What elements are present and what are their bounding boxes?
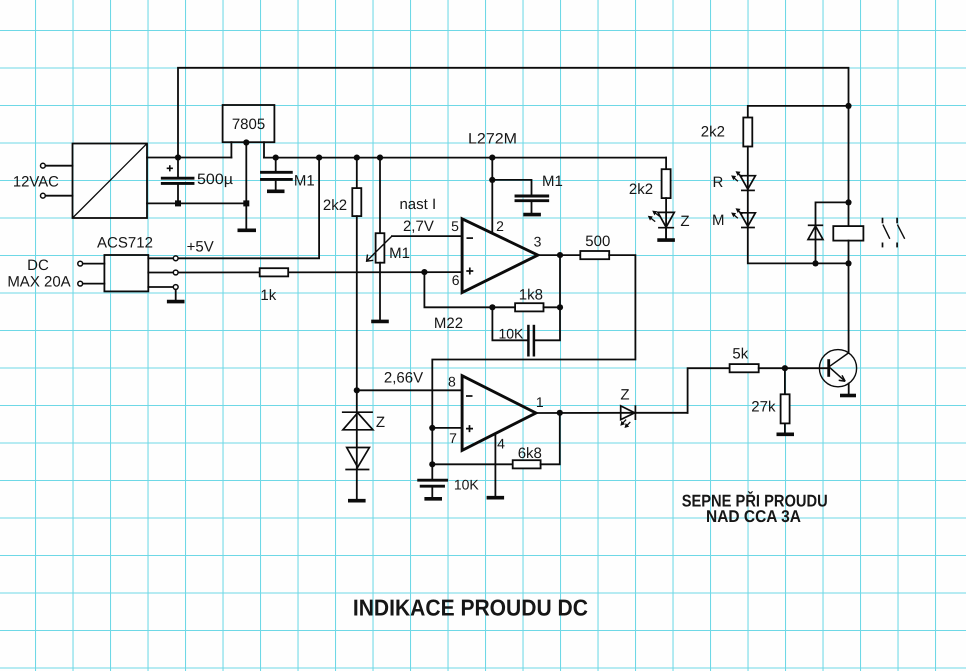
ground led Z <box>657 238 675 242</box>
svg-text:7: 7 <box>449 430 457 446</box>
wire to 2k2 red branch <box>748 106 849 118</box>
svg-text:M1: M1 <box>542 173 563 190</box>
svg-text:5: 5 <box>451 218 459 234</box>
svg-text:2k2: 2k2 <box>323 197 347 214</box>
wire opamp1 output <box>538 254 581 256</box>
op-amp U1B <box>462 376 536 451</box>
op-amp U1A <box>462 219 538 293</box>
wire sensor output to opamp <box>179 271 463 273</box>
junction rail 2k2 <box>354 155 360 161</box>
ground C2 <box>267 190 285 194</box>
wire led M to relay bottom rail <box>748 228 849 264</box>
wire 2k2 to led R <box>747 147 749 191</box>
svg-text:500: 500 <box>585 233 610 250</box>
capacitor C1 500u <box>162 158 193 204</box>
wire 7805 gnd pin <box>245 142 247 230</box>
terminal DC in bottom <box>78 281 105 286</box>
svg-text:1: 1 <box>536 394 544 410</box>
ground C5 <box>424 497 442 501</box>
wire 5k to base <box>759 367 828 369</box>
wire 2k2 to led Z <box>665 198 667 239</box>
svg-text:500µ: 500µ <box>197 171 233 188</box>
wire right rail to 2k2 led branch <box>665 158 667 170</box>
wire transformer top output to 7805 input <box>147 157 231 159</box>
wire pin 4 to ground <box>494 434 496 497</box>
svg-text:ACS712: ACS712 <box>97 235 153 252</box>
junction feedback left <box>489 304 495 310</box>
junction node 500u bottom <box>175 200 181 206</box>
junction flywheel bottom <box>812 260 818 266</box>
regulator U2 7805 <box>223 105 275 142</box>
wire ACS712 gnd <box>175 290 177 301</box>
svg-text:4: 4 <box>497 436 505 452</box>
relay K1 coil <box>833 106 863 264</box>
wire led to base network <box>688 368 730 413</box>
junction rail opamp supply <box>489 155 495 161</box>
resistor R5 6k8 <box>513 460 541 468</box>
svg-text:2k2: 2k2 <box>629 181 653 198</box>
wire top unregulated V+ <box>178 68 849 158</box>
resistor R4 500 <box>580 251 609 259</box>
wire 500 output to comparator input <box>432 255 635 464</box>
sensor U3 ACS712 <box>97 235 153 292</box>
relay contact 1 <box>883 218 890 248</box>
svg-text:7805: 7805 <box>232 116 265 133</box>
svg-text:3: 3 <box>534 233 542 249</box>
diode D7 flywheel <box>808 202 849 263</box>
zener diode D1 Z <box>342 390 373 500</box>
ground trimmer <box>371 320 389 324</box>
svg-text:1k: 1k <box>260 287 276 304</box>
junction base node <box>782 365 788 371</box>
svg-text:MAX 20A: MAX 20A <box>7 273 70 290</box>
resistor R3 1k8 <box>515 303 543 311</box>
junction rail M1 <box>273 155 279 161</box>
LED D6 M <box>731 208 755 227</box>
wire transformer bottom output <box>147 202 246 204</box>
transformer/rectifier block TR1 <box>73 144 148 219</box>
relay contact 2 <box>897 218 905 248</box>
wire opamp1 supply pin 2 <box>491 158 493 234</box>
svg-text:5k: 5k <box>732 345 748 362</box>
junction relay bottom <box>845 260 851 266</box>
wire 1k8 to output node <box>544 306 561 308</box>
wire trimmer wiper to inverting input <box>392 235 462 237</box>
diode D2 <box>345 448 369 470</box>
svg-text:Z: Z <box>376 414 385 431</box>
svg-text:M: M <box>712 212 725 229</box>
ground diode chain <box>348 499 366 503</box>
svg-text:12VAC: 12VAC <box>13 174 59 191</box>
resistor R7 27k <box>781 368 790 433</box>
svg-text:27k: 27k <box>751 398 776 415</box>
svg-text:2,66V: 2,66V <box>384 370 423 387</box>
LED D5 R <box>731 171 755 190</box>
wire 2.66V node to inverting input 8 <box>357 389 462 391</box>
svg-text:6k8: 6k8 <box>518 445 542 462</box>
junction feedback right <box>557 304 563 310</box>
wire 6k8 to output <box>541 413 560 465</box>
wire 7805 output pin <box>263 142 265 157</box>
terminal 12VAC top <box>41 163 73 168</box>
resistor R2 2k2 divider top <box>352 158 361 391</box>
LED D3 Z output <box>620 405 687 428</box>
ground emitter <box>840 394 856 398</box>
wire led R to led M <box>747 190 749 227</box>
svg-text:R: R <box>712 174 723 191</box>
resistor R6 5k <box>730 364 759 372</box>
junction output comparator <box>557 410 563 416</box>
terminal 12VAC bottom <box>41 193 73 198</box>
wire comparator plus input <box>432 427 462 429</box>
svg-text:10K: 10K <box>498 325 524 341</box>
junction 7805 gnd <box>243 139 249 145</box>
svg-text:2: 2 <box>496 218 504 234</box>
pin ACS712 +5V <box>148 256 178 261</box>
svg-text:M22: M22 <box>434 315 463 332</box>
junction 2.66V node <box>354 387 360 393</box>
capacitor C2 M1 at regulator output <box>262 158 292 191</box>
transistor Q1 <box>819 350 856 395</box>
wire 7805 input pin <box>230 142 232 157</box>
svg-text:1k8: 1k8 <box>519 286 543 303</box>
junction rail pot <box>377 155 383 161</box>
svg-text:M1: M1 <box>294 173 315 190</box>
junction rail +5V feed <box>316 155 322 161</box>
wire +5V feed to rail <box>179 158 320 259</box>
svg-text:M1: M1 <box>389 245 410 262</box>
ground pin 4 <box>487 496 505 500</box>
junction comparator plus <box>429 425 435 431</box>
resistor R1 1k <box>260 268 289 276</box>
ground 27k <box>777 432 795 436</box>
svg-text:NAD CCA 3A: NAD CCA 3A <box>706 507 801 526</box>
svg-text:10K: 10K <box>454 476 480 492</box>
ground C3 <box>523 213 541 217</box>
capacitor C3 M1 bypass <box>492 180 547 214</box>
pin ACS712 out <box>148 270 178 275</box>
junction flywheel top <box>845 199 851 205</box>
junction node 500u top <box>175 154 181 160</box>
junction gnd wire bottom <box>243 200 249 206</box>
capacitor C5 10K <box>419 464 447 498</box>
terminal DC in top <box>78 261 105 266</box>
junction opamp plus input <box>421 269 427 275</box>
svg-text:INDIKACE PROUDU DC: INDIKACE PROUDU DC <box>353 595 588 621</box>
wire output node down <box>559 255 561 307</box>
trimmer P1 nast I <box>367 158 392 321</box>
capacitor C4 10K feedback <box>492 307 560 356</box>
wire collector up <box>848 263 850 353</box>
ground ACS712 <box>167 300 185 304</box>
svg-text:L272M: L272M <box>468 130 517 147</box>
svg-text:+5V: +5V <box>187 239 214 256</box>
junction supply to bypass cap <box>489 177 495 183</box>
ground 7805 <box>238 229 257 233</box>
wire plus node down to cap and 6k8 <box>432 463 512 465</box>
junction top right branch <box>845 103 851 109</box>
LED D4 Z green <box>648 211 675 240</box>
svg-text:Z: Z <box>620 386 629 403</box>
resistor R9 2k2 red <box>743 118 752 147</box>
wire comparator output <box>536 412 636 414</box>
pin ACS712 gnd <box>148 285 178 290</box>
svg-text:8: 8 <box>448 373 456 389</box>
svg-text:DC: DC <box>27 257 49 274</box>
junction plus lower node <box>429 461 435 467</box>
wire +5V rail <box>264 157 666 159</box>
svg-text:6: 6 <box>452 272 460 288</box>
svg-text:Z: Z <box>680 213 689 230</box>
svg-text:2k2: 2k2 <box>701 124 725 141</box>
wire feedback tap <box>424 272 515 307</box>
junction output node <box>557 252 563 258</box>
resistor R8 2k2 led <box>662 169 671 198</box>
svg-text:2,7V: 2,7V <box>403 218 434 235</box>
svg-text:nast I: nast I <box>399 196 436 213</box>
